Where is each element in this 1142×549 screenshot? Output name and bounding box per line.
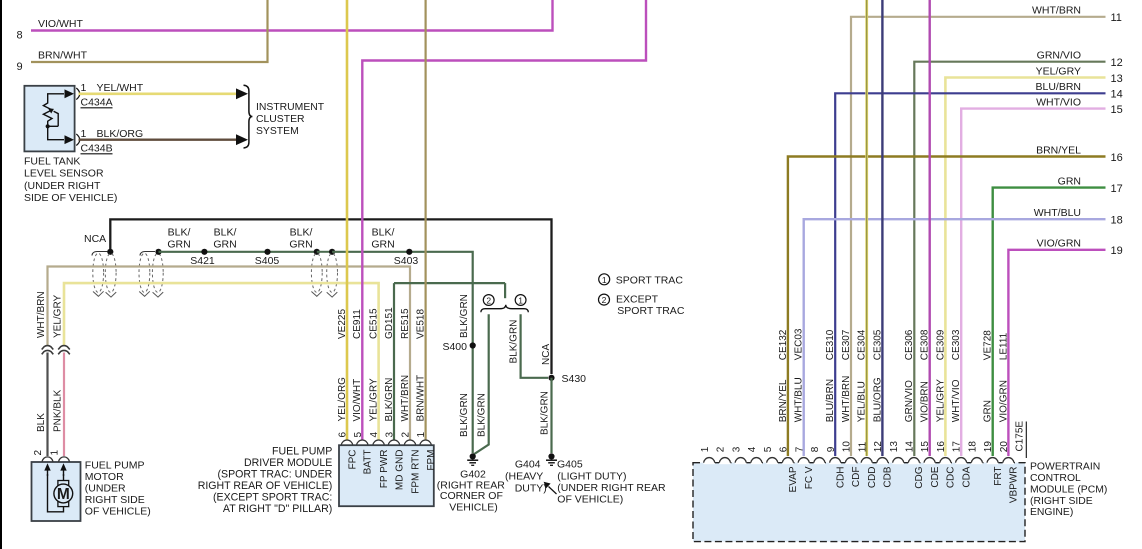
- svg-text:(SPORT TRAC: UNDER: (SPORT TRAC: UNDER: [218, 469, 333, 481]
- svg-text:8: 8: [810, 446, 821, 452]
- svg-text:CDB: CDB: [883, 466, 894, 487]
- fuel pump driver module box: [339, 445, 434, 506]
- svg-text:CDA: CDA: [961, 466, 972, 487]
- svg-text:BLK/GRN: BLK/GRN: [508, 320, 519, 364]
- svg-text:CE304: CE304: [857, 329, 868, 360]
- svg-text:CE310: CE310: [825, 329, 836, 360]
- svg-text:CE307: CE307: [841, 329, 852, 360]
- svg-text:RIGHT SIDE: RIGHT SIDE: [85, 494, 145, 506]
- svg-text:WHT/VIO: WHT/VIO: [1036, 96, 1081, 108]
- svg-text:BLK/GRN: BLK/GRN: [459, 294, 470, 338]
- PCM pin 20: [1003, 460, 1014, 465]
- svg-text:C434A: C434A: [81, 97, 113, 109]
- svg-text:6: 6: [338, 432, 349, 438]
- fuel pump motor box: [32, 462, 81, 521]
- svg-text:GRN: GRN: [213, 239, 236, 251]
- svg-text:GRN: GRN: [289, 239, 312, 251]
- svg-text:MOTOR: MOTOR: [85, 471, 124, 483]
- svg-text:2: 2: [33, 450, 44, 456]
- svg-text:CE303: CE303: [951, 329, 962, 360]
- PCM pin 16: [940, 460, 951, 465]
- svg-text:S430: S430: [562, 373, 587, 385]
- splice S400: [470, 342, 476, 348]
- svg-text:4: 4: [747, 446, 758, 452]
- legend option 1 SPORT TRAC: [599, 274, 610, 285]
- svg-text:(LIGHT DUTY): (LIGHT DUTY): [557, 471, 626, 483]
- svg-text:CE515: CE515: [369, 308, 380, 339]
- svg-text:GD151: GD151: [384, 307, 395, 339]
- svg-text:BRN/WHT: BRN/WHT: [416, 375, 427, 422]
- svg-text:BLK/: BLK/: [214, 227, 237, 239]
- svg-text:OF VEHICLE): OF VEHICLE): [557, 494, 623, 506]
- wire 8 VIO/WHT: [31, 0, 553, 31]
- svg-text:14: 14: [905, 441, 916, 453]
- svg-text:14: 14: [1111, 89, 1123, 101]
- PCM pin 2: [719, 460, 730, 465]
- wire stub into loom A: [92, 252, 108, 256]
- PCM pin 12: [877, 460, 888, 465]
- svg-text:3: 3: [385, 432, 396, 438]
- svg-text:1: 1: [81, 128, 87, 140]
- svg-text:18: 18: [968, 441, 979, 453]
- svg-text:CDD: CDD: [867, 467, 878, 489]
- powertrain control module (PCM) box: [693, 463, 1025, 542]
- PCM pin 13: [893, 460, 904, 465]
- svg-text:C175E: C175E: [1015, 421, 1026, 452]
- svg-text:2: 2: [486, 295, 491, 305]
- svg-text:BLK/: BLK/: [372, 227, 395, 239]
- motor connector arcs: [42, 457, 53, 462]
- svg-text:11: 11: [1111, 12, 1122, 24]
- svg-text:GRN: GRN: [983, 400, 994, 422]
- svg-text:17: 17: [952, 441, 963, 453]
- wire 18 WHT/BLU: [804, 219, 1106, 456]
- fuel tank level sensor (variable resistor): [24, 86, 74, 152]
- wire BLK/GRN bus: [159, 251, 317, 253]
- svg-text:BLK/: BLK/: [290, 227, 313, 239]
- svg-text:(UNDER RIGHT REAR: (UNDER RIGHT REAR: [557, 482, 666, 494]
- svg-text:CDG: CDG: [914, 466, 925, 488]
- svg-text:BLK/GRN: BLK/GRN: [539, 391, 550, 435]
- wire BLK/GRN drop to brace: [504, 283, 506, 298]
- svg-text:FPM RTN: FPM RTN: [410, 450, 421, 494]
- svg-text:18: 18: [1111, 215, 1123, 227]
- svg-text:(RIGHT SIDE: (RIGHT SIDE: [1030, 496, 1093, 507]
- PCM pin 8: [814, 460, 825, 465]
- svg-text:CE309: CE309: [935, 329, 946, 360]
- svg-text:PNK/BLK: PNK/BLK: [52, 389, 63, 432]
- svg-text:CDH: CDH: [836, 467, 847, 489]
- svg-text:BLK/GRN: BLK/GRN: [477, 393, 488, 437]
- svg-text:(UNDER RIGHT: (UNDER RIGHT: [24, 180, 101, 192]
- splice S421: [201, 249, 207, 255]
- svg-text:GRN: GRN: [1058, 175, 1081, 187]
- svg-text:GRN/VIO: GRN/VIO: [1037, 50, 1081, 62]
- PCM pin 7: [798, 460, 809, 465]
- splice S430: [548, 375, 554, 381]
- svg-text:WHT/BLU: WHT/BLU: [794, 377, 805, 422]
- svg-text:INSTRUMENT: INSTRUMENT: [256, 102, 325, 113]
- svg-text:AT RIGHT "D" PILLAR): AT RIGHT "D" PILLAR): [223, 503, 332, 515]
- wire stub into loom B: [140, 252, 155, 256]
- inline connector on pump wires (left): [42, 346, 54, 350]
- svg-text:M: M: [57, 486, 70, 503]
- svg-text:VEHICLE): VEHICLE): [449, 502, 497, 514]
- wire 15 WHT/VIO: [961, 109, 1105, 456]
- svg-text:8: 8: [17, 30, 23, 42]
- svg-text:CDC: CDC: [946, 467, 957, 489]
- svg-text:CDE: CDE: [930, 466, 941, 487]
- svg-text:YEL/WHT: YEL/WHT: [97, 82, 144, 94]
- svg-text:FUEL TANK: FUEL TANK: [24, 156, 80, 168]
- svg-text:3: 3: [731, 446, 742, 452]
- svg-text:VIO/BRN: VIO/BRN: [920, 381, 931, 422]
- svg-text:FUEL PUMP: FUEL PUMP: [272, 446, 332, 458]
- svg-text:5: 5: [353, 432, 364, 438]
- svg-text:16: 16: [936, 441, 947, 453]
- wire 11 WHT/BRN: [851, 17, 1106, 456]
- svg-text:1: 1: [81, 82, 87, 94]
- svg-text:WHT/BRN: WHT/BRN: [1032, 5, 1081, 17]
- PCM pin 17: [955, 460, 966, 465]
- PCM pin 6: [782, 460, 793, 465]
- svg-text:BRN/YEL: BRN/YEL: [778, 379, 789, 422]
- svg-text:VIO/WHT: VIO/WHT: [38, 18, 83, 30]
- svg-text:CLUSTER: CLUSTER: [256, 114, 305, 125]
- svg-text:CE132: CE132: [778, 329, 789, 360]
- svg-text:12: 12: [1111, 57, 1123, 69]
- svg-text:WHT/VIO: WHT/VIO: [951, 379, 962, 422]
- twisted loom A: [93, 253, 104, 292]
- wire BLK/GRN S403 to S400 to G402: [472, 283, 474, 453]
- svg-text:19: 19: [1111, 245, 1123, 257]
- splice S403: [406, 249, 412, 255]
- wire WHT/BRN pump return: [48, 267, 411, 441]
- svg-text:SIDE OF VEHICLE): SIDE OF VEHICLE): [24, 192, 117, 204]
- motor M1 symbol: [48, 474, 64, 512]
- wiper arrow of sensor: [48, 125, 59, 127]
- wire PNK/BLK to motor: [63, 353, 65, 457]
- arrowhead into instrument cluster (bottom): [236, 134, 248, 145]
- svg-text:20: 20: [999, 441, 1010, 453]
- svg-text:FPM: FPM: [426, 450, 437, 471]
- svg-text:LEVEL SENSOR: LEVEL SENSOR: [24, 168, 104, 180]
- svg-text:(HEAVY: (HEAVY: [505, 471, 543, 483]
- wire BLK/GRN bus to S403 and corner: [332, 252, 473, 283]
- svg-text:1: 1: [518, 295, 523, 305]
- inline connector on pump wires (right): [58, 346, 70, 350]
- wire YEL/ORG FPC: [346, 0, 349, 440]
- twisted loom B: [139, 253, 150, 292]
- svg-text:LE111: LE111: [998, 332, 1009, 360]
- twisted loom C on bus: [314, 249, 320, 255]
- wire 13 YEL/GRY: [945, 78, 1105, 457]
- resistor element inside sensor: [48, 94, 64, 104]
- svg-text:CE308: CE308: [920, 329, 931, 360]
- svg-text:VE225: VE225: [337, 309, 348, 339]
- svg-text:(UNDER: (UNDER: [85, 482, 126, 494]
- svg-text:16: 16: [1111, 152, 1123, 164]
- svg-text:G405: G405: [557, 459, 583, 471]
- PCM pin 19: [987, 460, 998, 465]
- svg-text:NCA: NCA: [541, 344, 552, 365]
- option 1 marker: [515, 295, 526, 306]
- wire 14 BLU/BRN: [835, 93, 1105, 456]
- svg-text:13: 13: [1111, 73, 1123, 85]
- wire 16 BRN/YEL: [788, 157, 1106, 457]
- svg-text:VE518: VE518: [416, 309, 427, 339]
- svg-text:WHT/BRN: WHT/BRN: [841, 376, 852, 423]
- svg-text:GRN: GRN: [371, 239, 394, 251]
- node loom B exit: [155, 249, 161, 255]
- svg-text:NCA: NCA: [84, 233, 106, 245]
- wire 19 VIO/GRN: [1008, 250, 1105, 456]
- svg-text:YEL/ORG: YEL/ORG: [337, 377, 348, 422]
- sensor pin 1 arrow (top): [65, 89, 75, 98]
- svg-text:RIGHT REAR OF VEHICLE): RIGHT REAR OF VEHICLE): [198, 480, 333, 492]
- motor lead arrows: [47, 467, 49, 476]
- wire BLK/GRN S430 to G405: [550, 378, 552, 453]
- wire BLK to motor: [46, 353, 48, 457]
- PCM pin 10: [845, 460, 856, 465]
- svg-text:VIO/GRN: VIO/GRN: [998, 380, 1009, 422]
- svg-text:DUTY): DUTY): [515, 482, 547, 494]
- svg-text:BRN/YEL: BRN/YEL: [1036, 144, 1081, 156]
- alternatives brace: [481, 305, 528, 313]
- svg-text:BLK/ORG: BLK/ORG: [97, 128, 144, 140]
- svg-text:BLK/GRN: BLK/GRN: [459, 393, 470, 437]
- PCM pin 9: [830, 460, 841, 465]
- svg-text:10: 10: [842, 441, 853, 453]
- svg-text:EXCEPT: EXCEPT: [616, 294, 659, 306]
- svg-text:VIO/WHT: VIO/WHT: [352, 379, 363, 422]
- svg-text:YEL/GRY: YEL/GRY: [1036, 65, 1081, 77]
- svg-text:DRIVER MODULE: DRIVER MODULE: [244, 457, 332, 469]
- svg-text:WHT/BLU: WHT/BLU: [1034, 207, 1081, 219]
- wire BLU/ORG from top to PCM pin 12: [881, 0, 883, 456]
- wire BLK/GRN option 2 leg to G402: [474, 314, 489, 454]
- svg-text:VIO/GRN: VIO/GRN: [1037, 238, 1081, 250]
- legend option 2 EXCEPT SPORT TRAC: [599, 294, 610, 305]
- wire 9 BRN/WHT: [31, 0, 268, 62]
- option 2 marker: [483, 295, 494, 306]
- splice S405: [264, 249, 270, 255]
- wire BLK/GRN option 1 leg to S430: [521, 314, 548, 378]
- svg-text:BLK/GRN: BLK/GRN: [384, 378, 395, 422]
- svg-text:CONTROL: CONTROL: [1030, 473, 1081, 484]
- svg-text:1: 1: [700, 446, 711, 452]
- svg-text:GRN: GRN: [167, 239, 190, 251]
- svg-text:EVAP: EVAP: [788, 466, 799, 492]
- svg-text:WHT/BRN: WHT/BRN: [36, 291, 47, 338]
- svg-text:ENGINE): ENGINE): [1030, 507, 1073, 518]
- svg-text:BRN/WHT: BRN/WHT: [38, 50, 88, 62]
- svg-text:FRT: FRT: [993, 467, 1004, 486]
- svg-text:17: 17: [1111, 183, 1123, 195]
- wire YEL/WHT sensor to cluster: [79, 93, 237, 96]
- svg-text:GRN/VIO: GRN/VIO: [904, 380, 915, 422]
- svg-text:BLU/BRN: BLU/BRN: [1035, 81, 1081, 93]
- PCM pin 1: [704, 460, 715, 465]
- wire VIO/WHT BATT: [362, 0, 646, 440]
- wire 12 GRN/VIO: [914, 62, 1105, 456]
- svg-text:1: 1: [602, 275, 607, 285]
- svg-text:1: 1: [50, 450, 61, 456]
- svg-text:C434B: C434B: [81, 143, 113, 155]
- svg-text:BLU/ORG: BLU/ORG: [872, 377, 883, 422]
- svg-text:RE515: RE515: [400, 308, 411, 339]
- svg-text:MODULE (PCM): MODULE (PCM): [1030, 484, 1107, 495]
- PCM pin 14: [908, 460, 919, 465]
- svg-text:6: 6: [779, 446, 790, 452]
- node NCA junction at bus: [107, 249, 113, 255]
- svg-text:BLK: BLK: [36, 413, 47, 432]
- svg-text:FPC: FPC: [347, 450, 358, 470]
- PCM pin 5: [767, 460, 778, 465]
- PCM pin 3: [735, 460, 746, 465]
- wire NCA (black) from instrument cluster area to S430: [110, 219, 551, 374]
- svg-text:SPORT TRAC: SPORT TRAC: [617, 305, 685, 317]
- svg-text:CE306: CE306: [904, 329, 915, 360]
- svg-text:SPORT TRAC: SPORT TRAC: [616, 274, 684, 286]
- svg-text:BLK/: BLK/: [168, 227, 191, 239]
- svg-text:5: 5: [763, 446, 774, 452]
- svg-text:11: 11: [857, 441, 868, 452]
- svg-text:2: 2: [716, 446, 727, 452]
- svg-text:YEL/GRY: YEL/GRY: [935, 379, 946, 422]
- sensor pin 1 arrow (bottom): [65, 135, 75, 144]
- svg-text:FUEL PUMP: FUEL PUMP: [85, 459, 145, 471]
- svg-text:9: 9: [17, 61, 23, 73]
- svg-text:19: 19: [983, 441, 994, 453]
- ground G402: [470, 453, 476, 459]
- svg-text:MD GND: MD GND: [394, 450, 405, 491]
- svg-text:BLU/BRN: BLU/BRN: [825, 379, 836, 422]
- wire BRN/WHT FPM: [425, 0, 427, 440]
- svg-text:7: 7: [794, 446, 805, 452]
- svg-text:2: 2: [602, 295, 607, 305]
- svg-text:YEL/BLU: YEL/BLU: [857, 381, 868, 422]
- svg-text:VE728: VE728: [983, 330, 994, 360]
- PCM pin 15: [924, 460, 935, 465]
- svg-text:YEL/GRY: YEL/GRY: [52, 295, 63, 338]
- svg-text:G404: G404: [515, 459, 541, 471]
- svg-text:S400: S400: [442, 341, 467, 353]
- svg-text:9: 9: [826, 446, 837, 452]
- svg-text:SYSTEM: SYSTEM: [256, 126, 299, 137]
- arrowhead into instrument cluster (top): [236, 88, 248, 99]
- svg-text:1: 1: [416, 432, 427, 438]
- svg-text:BATT: BATT: [363, 450, 374, 475]
- wire YEL/BLU from top to PCM pin 11: [865, 0, 868, 456]
- svg-text:VBPWR: VBPWR: [1009, 466, 1020, 503]
- svg-text:4: 4: [369, 432, 380, 438]
- instrument cluster system brace: [244, 85, 253, 148]
- svg-text:CORNER OF: CORNER OF: [440, 490, 503, 502]
- svg-text:(EXCEPT SPORT TRAC:: (EXCEPT SPORT TRAC:: [213, 492, 332, 504]
- svg-text:VEC03: VEC03: [794, 328, 805, 360]
- svg-text:FC V: FC V: [804, 466, 815, 489]
- svg-text:2: 2: [401, 432, 412, 438]
- svg-text:15: 15: [1111, 104, 1123, 116]
- svg-text:CE305: CE305: [872, 329, 883, 360]
- svg-text:OF VEHICLE): OF VEHICLE): [85, 505, 151, 517]
- svg-text:12: 12: [873, 441, 884, 453]
- wire VIO/BRN from top to PCM pin 15: [929, 0, 931, 456]
- wire 17 GRN: [993, 188, 1106, 456]
- svg-text:CDF: CDF: [851, 467, 862, 488]
- svg-text:POWERTRAIN: POWERTRAIN: [1030, 462, 1100, 473]
- svg-text:15: 15: [920, 441, 931, 453]
- svg-text:WHT/BRN: WHT/BRN: [400, 375, 411, 422]
- wire BLK/ORG sensor to cluster: [79, 138, 237, 140]
- PCM pin 18: [971, 460, 982, 465]
- wire BLK/GRN MD GND: [393, 283, 395, 440]
- svg-text:YEL/GRY: YEL/GRY: [369, 378, 380, 421]
- PCM pin 4: [751, 460, 762, 465]
- svg-text:FP PWR: FP PWR: [379, 450, 390, 489]
- svg-text:CE911: CE911: [352, 309, 363, 339]
- svg-text:13: 13: [889, 441, 900, 453]
- ground G405: [548, 453, 554, 459]
- wire YEL/GRY pump power: [64, 283, 379, 440]
- PCM pin 11: [861, 460, 872, 465]
